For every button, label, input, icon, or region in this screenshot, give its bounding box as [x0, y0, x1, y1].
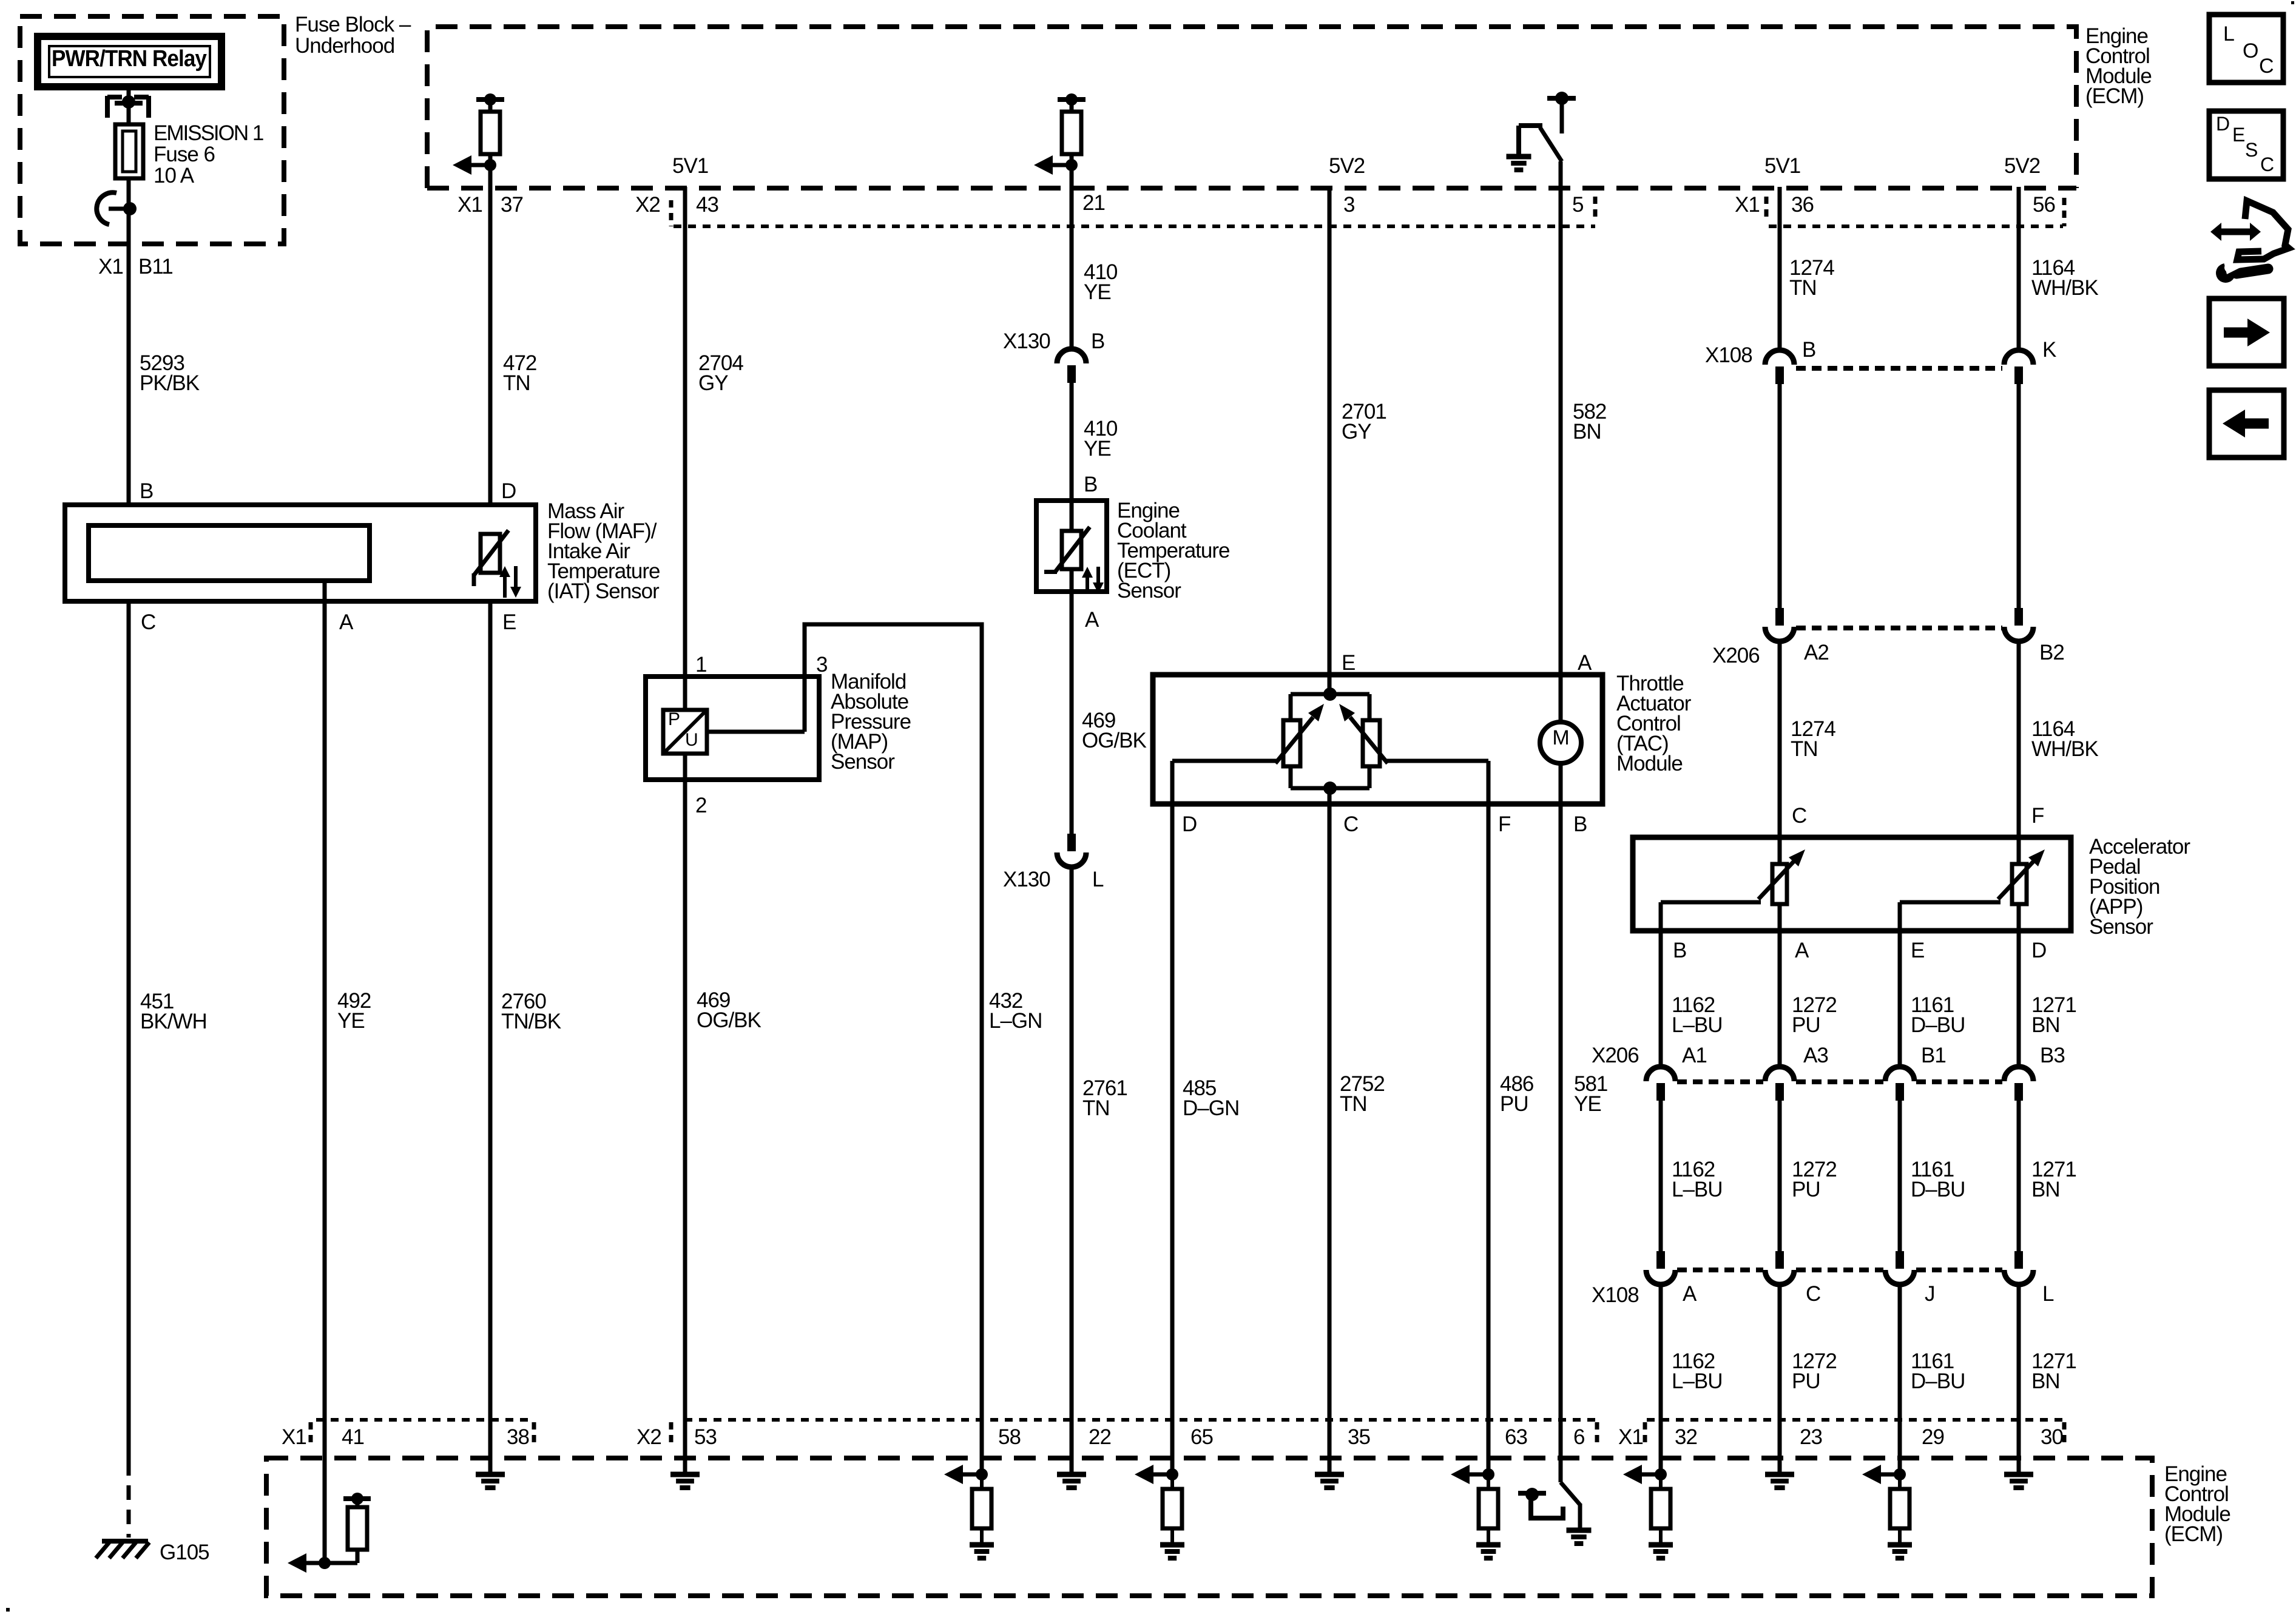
- wire 582 BN ECM pin 5 to TAC pin A: [1559, 161, 1563, 722]
- ECM bottom pin labels: [282, 1425, 2063, 1449]
- svg-text:X206: X206: [1592, 1044, 1639, 1067]
- connector X108 row1 labels: [1705, 338, 2056, 367]
- icon back box: [2209, 390, 2284, 457]
- svg-text:TN: TN: [1340, 1092, 1367, 1116]
- svg-text:58: 58: [998, 1425, 1021, 1449]
- ECM internal circuit pin 58: [944, 1465, 994, 1558]
- svg-text:B: B: [1091, 329, 1104, 353]
- svg-text:53: 53: [694, 1425, 717, 1449]
- svg-text:38: 38: [507, 1425, 529, 1449]
- svg-text:5V2: 5V2: [2004, 154, 2040, 178]
- ECM bottom connector tick X2: [669, 1422, 674, 1448]
- svg-text:TN: TN: [1791, 737, 1818, 761]
- page artifact dot bottom left: [6, 1608, 10, 1612]
- svg-text:E: E: [1911, 939, 1924, 962]
- label 1272 PU row1: [1792, 993, 1837, 1037]
- svg-text:D–BU: D–BU: [1911, 1178, 1965, 1201]
- label 410 YE upper: [1084, 260, 1118, 304]
- TAC motor M: [1540, 722, 1581, 763]
- label 1271 BN row1: [2031, 993, 2076, 1037]
- label 1162 L-BU row2: [1672, 1158, 1723, 1201]
- label 582 BN: [1573, 400, 1606, 444]
- ECM internal circuit pin 41: [288, 1493, 371, 1573]
- connector X206 row2 labels: [1592, 1044, 2065, 1067]
- svg-text:Underhood: Underhood: [295, 34, 394, 58]
- ECM top pin labels: [458, 191, 2055, 217]
- svg-text:S: S: [2245, 139, 2257, 161]
- svg-text:B: B: [1802, 338, 1815, 362]
- svg-text:YE: YE: [1574, 1092, 1601, 1116]
- svg-text:Module: Module: [1616, 752, 1683, 775]
- svg-text:L–GN: L–GN: [989, 1009, 1042, 1033]
- svg-text:L–BU: L–BU: [1672, 1369, 1723, 1393]
- connector X206 A3: [1765, 1067, 1794, 1101]
- relay K1 PWR/TRN box: [38, 36, 221, 87]
- APP wiper E wire: [1900, 900, 2001, 905]
- svg-text:TN/BK: TN/BK: [501, 1010, 561, 1033]
- svg-text:GY: GY: [1342, 420, 1371, 444]
- svg-text:D: D: [2031, 939, 2046, 962]
- svg-text:C: C: [1806, 1282, 1820, 1306]
- connector X108 L: [2004, 1251, 2033, 1284]
- svg-text:(ECM): (ECM): [2085, 84, 2144, 108]
- svg-text:5: 5: [1572, 193, 1583, 217]
- connector X108 K: [2004, 350, 2033, 384]
- label 492 YE: [337, 989, 371, 1033]
- svg-text:3: 3: [816, 653, 827, 677]
- ECM bottom connector tick after 38: [532, 1422, 536, 1448]
- relay contact T-bar: [115, 95, 143, 124]
- ground G105 label: [160, 1541, 209, 1564]
- connector X108 row1 dash: [1796, 366, 2002, 371]
- svg-text:P: P: [668, 709, 680, 729]
- ECM bottom connector tick X1 left: [309, 1422, 313, 1448]
- svg-text:(ECM): (ECM): [2164, 1522, 2223, 1546]
- wire 2752 TN TAC pin C to ECM pin 35: [1328, 788, 1332, 1474]
- svg-text:D: D: [1182, 812, 1197, 836]
- connector X206 B3: [2004, 1067, 2033, 1101]
- ground ECM pin 30: [2004, 1474, 2033, 1488]
- ground ECM pin 38: [476, 1474, 505, 1488]
- ECM internal switch pin 5: [1507, 92, 1576, 170]
- svg-text:E: E: [2232, 124, 2244, 146]
- svg-text:21: 21: [1082, 191, 1105, 215]
- svg-text:5V1: 5V1: [672, 154, 708, 178]
- svg-text:F: F: [1498, 812, 1510, 836]
- wire 1274 TN X108 B to X206 A2: [1778, 383, 1782, 609]
- APP label: [2089, 835, 2190, 939]
- MAP wire 3 internal: [707, 730, 805, 734]
- svg-text:BN: BN: [1573, 420, 1601, 444]
- label 1161 D-BU row1: [1911, 993, 1965, 1037]
- wire 1272 PU X206 A3 to X108 C: [1778, 1100, 1782, 1253]
- ECM bottom label: [2164, 1462, 2230, 1546]
- svg-text:D–BU: D–BU: [1911, 1369, 1965, 1393]
- svg-text:U: U: [685, 730, 698, 750]
- label 2701 GY: [1342, 400, 1386, 444]
- svg-text:Sensor: Sensor: [831, 750, 895, 774]
- ECM top connector tick right end: [2062, 198, 2067, 226]
- label 2760 TN/BK: [501, 990, 561, 1033]
- wire 2701 GY ECM pin 3 to TAC pin E: [1328, 187, 1332, 694]
- TAC label: [1616, 672, 1692, 775]
- label 2752 TN: [1340, 1072, 1385, 1116]
- connector X206 row1 dash: [1796, 626, 2002, 630]
- fuse F6 label: [154, 121, 263, 187]
- connector X108 row2 dash: [1677, 1268, 2002, 1272]
- ECM internal circuit pin 65: [1135, 1465, 1184, 1558]
- svg-text:L–BU: L–BU: [1672, 1013, 1723, 1037]
- svg-text:10 A: 10 A: [154, 164, 195, 187]
- wire 451 BK/WH dashed to G105: [127, 1461, 131, 1538]
- svg-text:C: C: [141, 610, 155, 634]
- MAF IAT updown arrows: [499, 566, 521, 598]
- svg-text:3: 3: [1343, 193, 1354, 217]
- svg-text:L: L: [1092, 868, 1104, 891]
- MAF label: [547, 499, 660, 603]
- svg-text:WH/BK: WH/BK: [2031, 737, 2098, 761]
- svg-text:B2: B2: [2039, 641, 2064, 664]
- wire 1271 BN APP pin D to X206 B3: [2017, 903, 2021, 1067]
- label 469 OG/BK ECT: [1082, 709, 1147, 752]
- ECM top connector face line: [674, 224, 2063, 228]
- label 1274 TN upper: [1789, 256, 1834, 300]
- connector X206 B2: [2004, 608, 2033, 641]
- svg-text:A: A: [1795, 939, 1809, 962]
- MAF inner element: [89, 525, 370, 581]
- svg-text:23: 23: [1800, 1425, 1822, 1449]
- TAC wiper F wire: [1386, 759, 1488, 763]
- svg-text:X206: X206: [1712, 644, 1760, 667]
- svg-text:L–BU: L–BU: [1672, 1178, 1723, 1201]
- ECM bottom connector tick after 6: [1595, 1422, 1599, 1448]
- MAF pin labels: [140, 479, 516, 634]
- wire 1161 D-BU X206 B1 to X108 J: [1898, 1100, 1902, 1253]
- connector X130 B: [1057, 349, 1086, 383]
- svg-text:B: B: [140, 479, 153, 503]
- wire 485 D-GN TAC pin D to ECM pin 65: [1170, 761, 1175, 1474]
- ECM internal circuit pin 29: [1862, 1465, 1912, 1558]
- wire 1272 PU APP pin A to X206 A3: [1778, 903, 1782, 1067]
- ECT updown arrows: [1082, 567, 1104, 593]
- svg-text:B: B: [1084, 473, 1097, 496]
- label 1272 PU row3: [1792, 1349, 1837, 1393]
- wire 469 OG/BK MAP pin 2 to ECM pin 53: [683, 754, 687, 1474]
- svg-text:YE: YE: [1084, 437, 1111, 461]
- wire 410 YE ECM pin 21 to X130 B: [1070, 97, 1074, 348]
- label 1271 BN row3: [2031, 1349, 2076, 1393]
- label 485 D-GN: [1183, 1076, 1239, 1120]
- MAP label: [831, 670, 911, 774]
- svg-text:D–GN: D–GN: [1183, 1096, 1239, 1120]
- svg-text:WH/BK: WH/BK: [2031, 276, 2098, 300]
- svg-text:O: O: [2243, 39, 2258, 62]
- APP pot 2: [1998, 849, 2045, 904]
- APP wiper B wire: [1661, 900, 1761, 905]
- icon LOC box: [2209, 15, 2283, 83]
- svg-text:BN: BN: [2031, 1013, 2060, 1037]
- wire 1274 TN ECM pin 36 to X108 B: [1778, 187, 1782, 349]
- connector X130 B labels: [1003, 329, 1104, 353]
- ECM internal resistor pin 37: [453, 93, 504, 175]
- svg-text:TN: TN: [1082, 1096, 1110, 1120]
- MAP pin labels: [695, 653, 827, 817]
- ECM bottom connector tick right end: [2062, 1422, 2067, 1448]
- svg-text:63: 63: [1505, 1425, 1527, 1449]
- ECT label: [1117, 499, 1229, 603]
- ECM top connector tick X1: [1764, 197, 1769, 222]
- label 1274 TN lower: [1791, 717, 1835, 761]
- svg-text:X2: X2: [635, 193, 660, 217]
- svg-text:GY: GY: [698, 371, 728, 395]
- icon DESC box: [2209, 111, 2283, 179]
- label 2704 GY: [698, 351, 743, 395]
- svg-text:YE: YE: [337, 1009, 365, 1033]
- TAC pin labels: [1182, 651, 1592, 836]
- wire 581 YE TAC pin B to ECM pin 6: [1559, 763, 1563, 1482]
- svg-text:Fuse Block –: Fuse Block –: [295, 13, 411, 36]
- connector X206 A1: [1646, 1067, 1675, 1101]
- svg-text:EMISSION 1: EMISSION 1: [154, 121, 263, 145]
- wire 1272 PU X108 C to ECM pin 23: [1778, 1284, 1782, 1474]
- svg-text:L: L: [2042, 1282, 2054, 1306]
- svg-text:A2: A2: [1804, 641, 1829, 664]
- svg-text:A3: A3: [1803, 1044, 1828, 1067]
- svg-text:L: L: [2223, 22, 2234, 46]
- wire 1164 WH/BK X206 B2 to APP pin F: [2017, 641, 2021, 865]
- wire 1162 L-BU X108 A to ECM pin 32: [1659, 1284, 1663, 1474]
- svg-text:X108: X108: [1705, 343, 1752, 367]
- svg-text:BN: BN: [2031, 1369, 2060, 1393]
- svg-text:PU: PU: [1500, 1092, 1528, 1116]
- wire 469 OG/BK ECT pin A to X130 L: [1070, 570, 1074, 835]
- svg-text:X1: X1: [98, 255, 123, 279]
- svg-text:D: D: [501, 479, 516, 503]
- svg-text:B: B: [1573, 812, 1587, 836]
- MAF IAT sensor box: [65, 505, 536, 601]
- svg-text:5V2: 5V2: [1329, 154, 1365, 178]
- connector X108 C: [1765, 1251, 1794, 1284]
- label 432 L-GN: [989, 989, 1042, 1033]
- svg-text:B3: B3: [2040, 1044, 2065, 1067]
- label 581 YE: [1574, 1072, 1607, 1116]
- icon wrench arrow: [2210, 201, 2289, 283]
- connector X206 row2 dash: [1677, 1079, 2002, 1084]
- label 1161 D-BU row2: [1911, 1158, 1965, 1201]
- svg-text:30: 30: [2041, 1425, 2063, 1449]
- svg-text:36: 36: [1791, 193, 1814, 217]
- svg-text:OG/BK: OG/BK: [697, 1008, 761, 1032]
- fuse block label: [295, 13, 411, 58]
- svg-text:A: A: [1085, 608, 1099, 632]
- wire 1161 D-BU APP pin E to X206 B1: [1898, 902, 1902, 1067]
- ECM bottom box: [266, 1458, 2152, 1596]
- svg-text:E: E: [502, 610, 516, 634]
- TAC pot 1: [1275, 704, 1324, 766]
- wire 432 L-GN MAP pin 3 to ECM pin 58: [805, 624, 982, 1474]
- svg-text:A: A: [339, 610, 354, 634]
- ECT thermistor: [1044, 527, 1090, 572]
- wire 2760 TN/BK MAF pin E to ECM pin 38: [488, 601, 493, 1474]
- svg-text:E: E: [1342, 651, 1355, 675]
- svg-text:X1: X1: [458, 193, 482, 217]
- svg-text:C: C: [1792, 804, 1806, 828]
- connector X130 L labels: [1003, 868, 1104, 891]
- ground ECM pin 23: [1765, 1474, 1794, 1488]
- wire 472 TN ECM pin 37 to MAF pin D: [488, 97, 493, 505]
- label 1161 D-BU row3: [1911, 1349, 1965, 1393]
- net 5V1 label X2: [672, 154, 708, 178]
- label 486 PU: [1500, 1072, 1533, 1116]
- svg-text:YE: YE: [1084, 280, 1111, 304]
- svg-text:G105: G105: [160, 1541, 209, 1564]
- ground G105: [96, 1541, 149, 1558]
- ECM top connector tick pin5: [1593, 197, 1598, 222]
- svg-text:PK/BK: PK/BK: [140, 371, 200, 395]
- svg-text:Sensor: Sensor: [2089, 915, 2153, 939]
- wire 451 BK/WH MAF pin C down: [127, 601, 131, 1461]
- svg-text:D–BU: D–BU: [1911, 1013, 1965, 1037]
- label 2761 TN: [1082, 1076, 1127, 1120]
- svg-text:41: 41: [342, 1425, 364, 1449]
- svg-text:PU: PU: [1792, 1013, 1820, 1037]
- svg-text:B: B: [1673, 939, 1686, 962]
- svg-text:X108: X108: [1592, 1283, 1639, 1307]
- ECM internal circuit pin 63: [1451, 1465, 1501, 1558]
- svg-text:37: 37: [501, 193, 523, 217]
- svg-text:D: D: [2216, 113, 2229, 135]
- wire 410 YE X130 B to ECT pin B: [1070, 382, 1074, 533]
- TAC inner bridge bottom: [1291, 781, 1369, 795]
- page artifact dot top right: [2291, 1, 2294, 4]
- svg-text:M: M: [1552, 726, 1568, 749]
- wire 486 PU TAC pin F to ECM pin 63: [1487, 761, 1491, 1474]
- label 1162 L-BU row1: [1672, 993, 1723, 1037]
- wire 1271 BN X108 L to ECM pin 30: [2017, 1284, 2021, 1474]
- ECT pin labels: [1084, 473, 1099, 632]
- APP sensor box: [1633, 837, 2071, 931]
- relay K1 label: [52, 46, 207, 72]
- net 5V1 label X1: [1764, 154, 1800, 178]
- label 1164 WH/BK lower: [2031, 717, 2098, 761]
- ECM internal resistor pin 21: [1034, 93, 1086, 175]
- svg-text:TN: TN: [503, 371, 530, 395]
- svg-text:F: F: [2031, 804, 2044, 828]
- connector X130 L: [1057, 834, 1086, 867]
- net 5V2 label pin 3: [1329, 154, 1365, 178]
- svg-text:A: A: [1683, 1282, 1697, 1306]
- APP pot 1: [1758, 849, 1805, 904]
- ECM bottom connector face line: [316, 1418, 2063, 1422]
- svg-text:TN: TN: [1789, 276, 1817, 300]
- TAC wiper D wire: [1172, 759, 1277, 763]
- svg-text:X130: X130: [1003, 329, 1050, 353]
- ECM internal switch pin 6: [1518, 1482, 1592, 1544]
- svg-text:2: 2: [695, 794, 706, 817]
- ECM top box: [427, 27, 2076, 188]
- connector X206 B1: [1885, 1067, 1914, 1101]
- icon next box: [2209, 299, 2284, 366]
- connector X108 A: [1646, 1251, 1675, 1284]
- wire 2704 GY ECM pin 43 to MAP pin 1: [683, 187, 687, 710]
- connector X1 pin B11 labels: [98, 255, 173, 279]
- wire 1164 WH/BK X108 K to X206 B2: [2017, 383, 2021, 609]
- label 472 TN: [503, 351, 536, 395]
- label 1272 PU row2: [1792, 1158, 1837, 1201]
- TAC inner bridge sides: [1291, 694, 1369, 788]
- label 5293 PK/BK: [140, 351, 200, 395]
- svg-text:Sensor: Sensor: [1117, 579, 1181, 603]
- svg-text:5V1: 5V1: [1764, 154, 1800, 178]
- svg-text:PWR/TRN Relay: PWR/TRN Relay: [52, 46, 207, 72]
- MAF IAT thermistor: [474, 530, 508, 586]
- wire 1162 L-BU X206 A1 to X108 A: [1659, 1100, 1663, 1253]
- wire 1164 WH/BK ECM pin 56 to X108 K: [2017, 187, 2021, 349]
- svg-text:K: K: [2042, 338, 2056, 362]
- svg-text:A: A: [1578, 651, 1592, 675]
- connector X108 J: [1885, 1251, 1914, 1284]
- svg-text:32: 32: [1675, 1425, 1697, 1449]
- wire 2761 TN X130 L to ECM pin 22: [1070, 867, 1074, 1474]
- TAC module box: [1153, 675, 1602, 804]
- svg-text:6: 6: [1573, 1425, 1584, 1449]
- svg-text:X2: X2: [636, 1425, 661, 1449]
- svg-text:22: 22: [1089, 1425, 1111, 1449]
- wire 1274 TN X206 A2 to APP pin C: [1778, 641, 1782, 865]
- svg-text:C: C: [2260, 154, 2274, 175]
- APP pin labels: [1673, 804, 2046, 962]
- svg-text:PU: PU: [1792, 1369, 1820, 1393]
- label 1164 WH/BK upper: [2031, 256, 2098, 300]
- fuse F6 EMISSION 1: [115, 124, 143, 178]
- svg-text:43: 43: [696, 193, 718, 217]
- wire 492 YE MAF pin A down to ECM pin 41: [323, 581, 327, 1563]
- relay switch to B11: [96, 192, 137, 224]
- ECT sensor box: [1036, 501, 1107, 592]
- wire 1162 L-BU APP pin B to X206 A1: [1659, 902, 1663, 1067]
- label 1162 L-BU row3: [1672, 1349, 1723, 1393]
- svg-text:BK/WH: BK/WH: [140, 1010, 207, 1033]
- fuse block underhood box: [20, 16, 284, 244]
- svg-text:X1: X1: [1735, 193, 1760, 217]
- connector X108 row2 labels: [1592, 1282, 2054, 1307]
- svg-text:BN: BN: [2031, 1178, 2060, 1201]
- TAC inner bridge top: [1291, 687, 1369, 701]
- svg-text:B1: B1: [1921, 1044, 1946, 1067]
- svg-text:OG/BK: OG/BK: [1082, 729, 1147, 752]
- svg-text:C: C: [1343, 812, 1358, 836]
- svg-text:X130: X130: [1003, 868, 1050, 891]
- svg-text:X1: X1: [282, 1425, 306, 1449]
- wire 1161 D-BU X108 J to ECM pin 29: [1898, 1284, 1902, 1474]
- label 469 OG/BK MAP: [697, 988, 761, 1032]
- svg-text:C: C: [2259, 55, 2274, 78]
- ground ECM pin 53: [670, 1474, 700, 1488]
- MAP sensor box: [646, 677, 819, 780]
- MAP P/U transducer: [663, 709, 707, 754]
- wire 5293 PK/BK relay to MAF pin B: [127, 87, 131, 505]
- wire 1271 BN X206 B3 to X108 L: [2017, 1100, 2021, 1253]
- svg-text:A1: A1: [1682, 1044, 1707, 1067]
- svg-text:X1: X1: [1618, 1425, 1643, 1449]
- svg-text:Fuse 6: Fuse 6: [154, 143, 215, 166]
- svg-text:1: 1: [695, 653, 706, 677]
- ground ECM pin 22: [1057, 1474, 1086, 1488]
- TAC pot 2: [1339, 704, 1388, 766]
- relay contact brackets: [107, 96, 149, 118]
- label 451 BK/WH: [140, 990, 207, 1033]
- svg-text:(IAT) Sensor: (IAT) Sensor: [547, 579, 660, 603]
